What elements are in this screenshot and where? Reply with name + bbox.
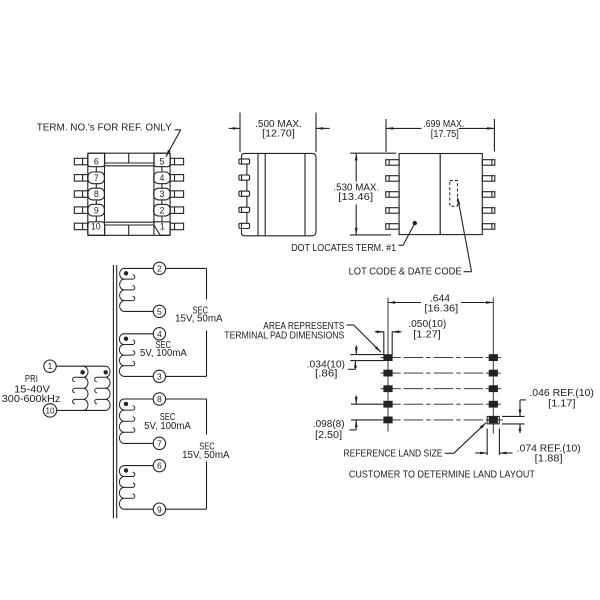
svg-text:[1.27]: [1.27]: [413, 330, 441, 341]
svg-text:5: 5: [159, 157, 164, 167]
dimension .530 MAX [13.46]: [350, 152, 396, 154]
primary winding terminal 1 circle: [44, 360, 56, 372]
pad terminal 6: [88, 153, 105, 167]
land pattern column centerline left: [387, 298, 389, 432]
side view lead 3: [239, 191, 250, 196]
land row 5 centerline: [381, 419, 397, 421]
output bracket wire pins 2-3: [206, 268, 208, 299]
lead terminal 4 (right): [170, 175, 184, 182]
side view castellated edge segments: [246, 164, 248, 175]
svg-text:10: 10: [46, 406, 55, 415]
svg-text:7: 7: [94, 173, 99, 183]
dimension .699 MAX [17.75]: [385, 119, 387, 152]
core outline top: [105, 162, 154, 164]
dimension .046 REF.(10) [1.17] land height: [502, 415, 525, 417]
terminal 4 circle: [153, 328, 165, 340]
dimension .644 [16.36]: [388, 302, 421, 304]
svg-text:300-600kHz: 300-600kHz: [2, 394, 60, 405]
pad terminal 2: [154, 204, 170, 216]
svg-text:3: 3: [157, 372, 162, 382]
lead terminal 2 (right): [170, 207, 184, 214]
wire terminal 9 to output bracket: [166, 508, 207, 510]
side view lead 4: [239, 207, 250, 212]
primary coil B: [106, 366, 111, 410]
front view lead 2 (right): [482, 176, 495, 182]
secondary winding 8-7 polarity dot: [124, 402, 128, 406]
primary top wire: [56, 365, 105, 367]
lead terminal 1 (right): [170, 223, 184, 230]
svg-text:2: 2: [157, 264, 162, 274]
front view lead 2 (left): [386, 176, 399, 182]
secondary winding 4-3 polarity dot: [124, 337, 128, 341]
svg-text:3: 3: [159, 189, 164, 199]
svg-text:[.86]: [.86]: [315, 369, 338, 380]
dimension .050(10) [1.27] pad width: [383, 331, 385, 354]
land row 4 centerline: [381, 403, 397, 405]
svg-text:1: 1: [48, 361, 53, 371]
pad terminal 5: [154, 153, 170, 167]
svg-text:4: 4: [157, 329, 162, 339]
svg-text:REFERENCE LAND SIZE: REFERENCE LAND SIZE: [344, 449, 443, 460]
side view body outline: [242, 153, 317, 235]
lead terminal 10 (left): [74, 223, 88, 230]
package top view: body outline: [88, 153, 170, 235]
terminal 7 circle: [153, 437, 165, 449]
land pattern column centerline right: [492, 298, 494, 434]
wire coil to terminal 9: [124, 508, 153, 510]
wire coil to terminal 4: [124, 333, 153, 335]
wire coil to terminal 2: [124, 267, 153, 269]
svg-text:TERMINAL PAD DIMENSIONS: TERMINAL PAD DIMENSIONS: [224, 331, 344, 342]
dimension .074 REF.(10) [1.88] land width: [486, 429, 488, 456]
svg-text:9: 9: [94, 205, 99, 215]
secondary winding 2-5 polarity dot: [124, 271, 128, 275]
secondary winding 8-7 coil: [119, 399, 124, 443]
primary coil A polarity dot: [80, 370, 84, 374]
land row 3 centerline: [381, 388, 397, 390]
terminal 9 circle: [153, 503, 165, 515]
terminal 8 circle: [153, 393, 165, 405]
wire terminal 8 to output bracket: [166, 398, 207, 400]
terminal pad 4 right: [489, 401, 497, 407]
terminal #1 locator dot: [413, 221, 417, 225]
svg-text:9: 9: [157, 504, 162, 514]
front view lead 5 (right): [482, 224, 495, 230]
svg-text:15V, 50mA: 15V, 50mA: [175, 314, 223, 325]
pad connection ticks left column: [95, 167, 97, 172]
transformer core: [112, 265, 114, 518]
svg-text:LOT CODE & DATE CODE: LOT CODE & DATE CODE: [349, 267, 462, 278]
svg-text:5: 5: [157, 307, 162, 317]
primary winding terminal 10 circle: [43, 404, 56, 417]
dimension .034(10) [.86] pad height: [350, 354, 384, 356]
secondary winding 6-9 coil: [119, 466, 124, 510]
terminal 3 circle: [153, 370, 165, 382]
wire coil to terminal 7: [124, 442, 153, 444]
leader to dot: [399, 244, 404, 246]
front view lead 4 (left): [386, 208, 399, 214]
wire coil to terminal 5: [124, 310, 153, 312]
front view lead 5 (left): [386, 224, 399, 230]
svg-text:15V, 50mA: 15V, 50mA: [182, 450, 230, 461]
pad terminal 8: [88, 188, 105, 200]
svg-text:10: 10: [91, 222, 101, 232]
terminal pad 5 left: [384, 417, 392, 423]
front view lead 1 (right): [482, 160, 495, 166]
svg-text:6: 6: [157, 461, 162, 471]
side view lead 5: [239, 223, 250, 228]
svg-text:[1.88]: [1.88]: [535, 454, 563, 465]
land row 2 centerline: [381, 372, 397, 374]
front view lead 1 (left): [386, 160, 399, 166]
pad terminal 4: [154, 172, 170, 184]
wire terminal 3 to output bracket: [166, 375, 207, 377]
svg-text:DOT LOCATES TERM. #1: DOT LOCATES TERM. #1: [291, 243, 396, 254]
lead terminal 3 (right): [170, 191, 184, 198]
secondary winding 6-9 polarity dot: [124, 468, 128, 472]
secondary winding 4-3 coil: [119, 334, 124, 377]
svg-text:[12.70]: [12.70]: [262, 128, 295, 139]
svg-text:1: 1: [160, 222, 165, 232]
terminal 2 circle: [153, 262, 165, 274]
terminal pad 4 left: [384, 401, 392, 407]
wire coil to terminal 6: [124, 465, 153, 467]
bobbin edge line right column: [153, 153, 155, 235]
lead terminal 5 (right): [170, 158, 184, 165]
front view center parting line: [439, 154, 441, 235]
leader to terminal pad 1: [347, 324, 354, 326]
svg-text:.098(8): .098(8): [313, 419, 345, 430]
terminal 6 circle: [153, 459, 165, 471]
core outline bottom: [105, 221, 154, 223]
bobbin edge line left column: [104, 153, 106, 235]
output bracket wire pins 8-9: [206, 399, 208, 435]
side view inner vertical lines: [257, 153, 259, 235]
front view lead 3 (right): [482, 192, 495, 198]
svg-text:[2.50]: [2.50]: [315, 430, 342, 441]
lead terminal 8 (left): [74, 191, 88, 198]
front view lead 3 (left): [386, 192, 399, 198]
leader to reference land: [445, 452, 454, 454]
side view lead 1: [239, 159, 250, 164]
svg-text:2: 2: [159, 205, 164, 215]
land row 1 centerline: [381, 357, 397, 359]
dimension .500 MAX [12.70]: [239, 113, 241, 153]
svg-text:8: 8: [157, 394, 162, 404]
lead terminal 6 (left): [74, 158, 88, 165]
terminal pad 2 left: [384, 370, 392, 376]
pad terminal 9: [88, 204, 105, 216]
svg-text:[1.17]: [1.17]: [548, 398, 576, 409]
svg-text:TERM. NO.'s FOR REF. ONLY: TERM. NO.'s FOR REF. ONLY: [37, 123, 172, 134]
leader to terminal 5: [175, 129, 181, 131]
svg-text:[17.75]: [17.75]: [431, 129, 459, 140]
pad terminal 1 with index chamfer: [154, 222, 170, 236]
terminal pad 3 right: [489, 386, 497, 392]
svg-text:7: 7: [157, 439, 162, 449]
svg-text:.050(10): .050(10): [408, 319, 446, 330]
pad terminal 10: [88, 222, 105, 236]
svg-text:5V, 100mA: 5V, 100mA: [140, 348, 187, 359]
pad terminal 7: [88, 172, 105, 184]
lot/date code dashed box: [450, 181, 458, 207]
terminal pad 1 left: [384, 355, 392, 361]
wire coil to terminal 3: [124, 375, 153, 377]
primary coil B polarity dot: [104, 370, 108, 374]
svg-text:[16.36]: [16.36]: [424, 304, 458, 315]
dimension .098(8) [2.50] pad pitch: [351, 403, 382, 405]
reference land outline: [487, 416, 499, 424]
svg-text:[13.46]: [13.46]: [338, 192, 373, 203]
lead terminal 7 (left): [74, 175, 88, 182]
primary coil A: [83, 366, 88, 410]
lead terminal 9 (left): [74, 207, 88, 214]
svg-text:5V, 100mA: 5V, 100mA: [144, 421, 191, 432]
svg-text:4: 4: [159, 173, 164, 183]
front view body outline: [399, 154, 482, 235]
pad terminal 3: [154, 188, 170, 200]
leader to dashed box: [464, 271, 472, 273]
terminal pad 3 left: [384, 386, 392, 392]
terminal pad 1 right: [489, 355, 497, 361]
secondary winding 2-5 coil: [120, 268, 124, 311]
terminal 5 circle: [153, 305, 165, 317]
wire terminal 2 to output bracket: [166, 267, 207, 269]
pad connection ticks right column: [161, 167, 163, 172]
side view lead 2: [239, 175, 250, 180]
primary bottom wire: [57, 409, 106, 411]
svg-text:8: 8: [94, 189, 99, 199]
svg-text:6: 6: [94, 157, 99, 167]
svg-text:CUSTOMER TO DETERMINE LAND LAY: CUSTOMER TO DETERMINE LAND LAYOUT: [349, 470, 535, 481]
terminal pad 5 right: [489, 417, 497, 423]
front view lead 4 (right): [482, 208, 495, 214]
wire coil to terminal 8: [124, 398, 153, 400]
terminal pad 2 right: [489, 370, 497, 376]
